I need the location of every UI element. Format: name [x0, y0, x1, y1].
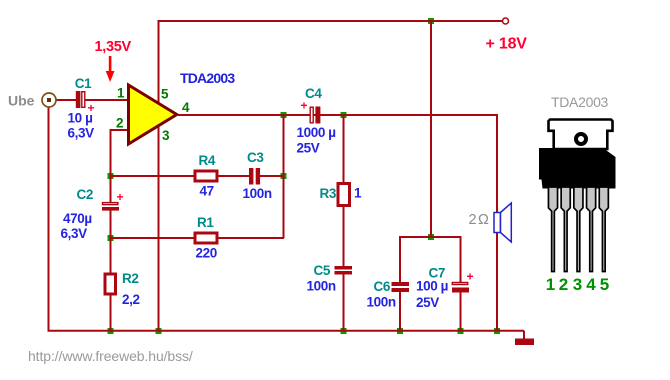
- svg-text:R1: R1: [197, 215, 214, 230]
- wire C2 to R2 to rail: [110, 210, 112, 331]
- node junction C3 right: [281, 173, 287, 179]
- svg-text:2,2: 2,2: [122, 292, 140, 307]
- node junction speaker rail: [494, 328, 500, 334]
- wire C7 leg: [460, 236, 462, 331]
- wire C6/C7 box top: [400, 236, 461, 238]
- arrow 1,35V pointer: [106, 56, 115, 82]
- terminal +18V circle: [503, 18, 509, 24]
- svg-text:R3: R3: [320, 186, 337, 201]
- capacitor C4: [310, 107, 320, 124]
- svg-text:+: +: [117, 190, 124, 204]
- wire top supply rail: [159, 20, 503, 22]
- wire Ube down: [48, 107, 50, 331]
- wire pin5 to top rail: [158, 20, 160, 103]
- svg-text:1: 1: [117, 86, 125, 101]
- wire R1 row: [111, 237, 285, 239]
- svg-text:C5: C5: [314, 263, 331, 278]
- svg-text:C2: C2: [77, 187, 93, 202]
- capacitor C1: [76, 91, 85, 108]
- wire bottom ground rail: [48, 331, 525, 339]
- svg-text:R4: R4: [199, 153, 216, 168]
- node junction C6 rail: [397, 328, 403, 334]
- svg-text:3: 3: [162, 128, 170, 143]
- svg-text:5: 5: [161, 87, 169, 102]
- svg-text:25V: 25V: [297, 141, 320, 156]
- svg-text:TDA2003: TDA2003: [551, 94, 609, 110]
- svg-text:C1: C1: [75, 76, 92, 91]
- ground: [515, 339, 534, 346]
- op-amp U1 TDA2003: [129, 85, 177, 144]
- IC package legs: [548, 187, 608, 272]
- wire R4 C3 row: [111, 175, 285, 177]
- capacitor C6: [392, 282, 410, 292]
- svg-text:100n: 100n: [307, 279, 336, 294]
- svg-text:47: 47: [200, 184, 214, 199]
- wire C6 leg: [399, 236, 401, 331]
- svg-text:TDA2003: TDA2003: [180, 70, 235, 86]
- wire R3/C5 leg: [343, 115, 345, 331]
- svg-text:4: 4: [586, 275, 596, 294]
- svg-text:100 µ: 100 µ: [416, 279, 448, 294]
- svg-text:C4: C4: [305, 86, 322, 101]
- svg-text:5: 5: [600, 275, 609, 294]
- svg-text:1,35V: 1,35V: [95, 39, 132, 55]
- svg-text:6,3V: 6,3V: [61, 226, 88, 241]
- resistor R3: [338, 184, 350, 206]
- wire +18V drop to C6/C7 box: [430, 21, 432, 237]
- svg-text:6,3V: 6,3V: [68, 126, 95, 141]
- svg-text:100n: 100n: [367, 295, 396, 310]
- node junction R3 rail: [341, 328, 347, 334]
- svg-text:220: 220: [196, 246, 217, 261]
- svg-text:+: +: [88, 101, 95, 115]
- wire pin3 to ground rail: [158, 127, 160, 331]
- wire pin2 to C2: [111, 130, 130, 203]
- svg-text:http://www.freeweb.hu/bss/: http://www.freeweb.hu/bss/: [28, 348, 193, 364]
- svg-text:3: 3: [573, 275, 582, 294]
- resistor R1: [195, 233, 217, 243]
- node junction R4 left: [108, 173, 114, 179]
- node junction R1 left: [108, 235, 114, 241]
- speaker LS 2 ohm: [494, 203, 511, 242]
- svg-text:1000 µ: 1000 µ: [297, 125, 336, 140]
- svg-text:2: 2: [559, 275, 568, 294]
- svg-text:1: 1: [354, 186, 362, 201]
- svg-text:+: +: [467, 270, 474, 284]
- capacitor C2: [102, 203, 119, 211]
- IC package hole: [576, 134, 586, 144]
- wire input pin1: [56, 99, 129, 101]
- svg-text:100n: 100n: [243, 186, 272, 201]
- resistor R4: [195, 171, 217, 181]
- svg-text:C6: C6: [374, 279, 391, 294]
- svg-text:1: 1: [546, 275, 555, 294]
- svg-text:+: +: [301, 99, 308, 113]
- node junction pin3 rail: [156, 328, 162, 334]
- resistor R2: [105, 274, 116, 294]
- wire feedback vertical: [283, 115, 285, 238]
- svg-text:C3: C3: [247, 150, 264, 165]
- svg-text:Ube: Ube: [8, 93, 35, 109]
- node junction output C4 left: [281, 112, 287, 118]
- svg-text:25V: 25V: [416, 295, 439, 310]
- svg-text:2Ω: 2Ω: [469, 212, 491, 228]
- connector Ube terminal: [42, 93, 56, 107]
- IC package TDA2003 tab: [549, 120, 613, 150]
- wire output pin4 to speaker: [178, 114, 497, 331]
- node junction R2 bottom rail: [108, 328, 114, 334]
- node junction C4 right: [341, 112, 347, 118]
- svg-text:2: 2: [116, 116, 123, 131]
- IC package body: [539, 148, 616, 189]
- capacitor C5: [335, 266, 353, 275]
- svg-text:R2: R2: [122, 271, 138, 286]
- svg-text:4: 4: [182, 100, 190, 115]
- svg-text:+ 18V: + 18V: [486, 36, 528, 53]
- node junction box top: [428, 234, 434, 240]
- capacitor C3: [249, 168, 260, 185]
- svg-text:470µ: 470µ: [63, 211, 92, 226]
- node junction top rail 18V: [428, 18, 434, 24]
- node junction C7 rail: [458, 328, 464, 334]
- capacitor C7: [452, 283, 469, 293]
